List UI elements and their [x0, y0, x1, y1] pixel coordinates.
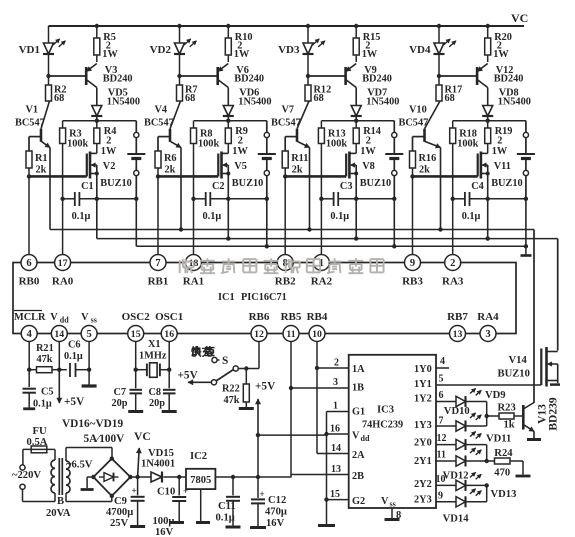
svg-text:V: V	[81, 312, 89, 323]
wire gate drive ch2	[158, 175, 218, 178]
label ~6.5V	[66, 460, 93, 471]
wire collector V10	[425, 101, 441, 129]
wire gate drive ch3	[285, 175, 346, 178]
svg-text:R21: R21	[36, 343, 54, 354]
svg-text:VD2: VD2	[150, 44, 172, 56]
svg-text:C10: C10	[157, 487, 175, 498]
capacitor C7	[130, 370, 143, 410]
label R2	[54, 85, 67, 105]
label C2	[203, 181, 225, 222]
label VD15	[141, 448, 175, 470]
ground Vss IC3	[385, 518, 400, 521]
wire source row ch4	[451, 197, 529, 201]
svg-text:V11: V11	[494, 161, 511, 172]
wire G1 Vdd tie	[324, 412, 348, 525]
label C10	[153, 487, 176, 537]
label pin12	[437, 433, 447, 444]
watermark	[180, 258, 384, 273]
svg-text:BD240: BD240	[103, 74, 133, 85]
svg-text:BUZ10: BUZ10	[100, 178, 131, 189]
svg-text:C12: C12	[268, 495, 286, 506]
svg-text:BD240: BD240	[234, 74, 264, 85]
power +5V R22 arrow	[256, 399, 261, 477]
label V11	[491, 161, 522, 189]
ground C7	[128, 410, 143, 413]
node base junction ch1	[46, 74, 50, 78]
svg-text:9: 9	[410, 258, 415, 269]
label C6	[64, 340, 83, 363]
svg-text:1W: 1W	[362, 49, 378, 60]
wire Vss	[87, 341, 91, 384]
svg-text:BD240: BD240	[362, 74, 392, 85]
label R12	[314, 85, 332, 105]
svg-text:1W: 1W	[102, 49, 118, 60]
node base junction ch3	[306, 74, 310, 78]
label 1A	[352, 364, 365, 375]
svg-text:MCLR: MCLR	[14, 312, 46, 323]
label C8	[149, 387, 166, 409]
resistor R10	[225, 26, 231, 62]
svg-text:OSC2: OSC2	[122, 311, 151, 323]
svg-text:7805: 7805	[190, 475, 211, 486]
svg-text:+: +	[260, 489, 265, 499]
label R19	[492, 126, 513, 157]
ground Vss	[82, 384, 97, 387]
transistor V13	[523, 403, 534, 439]
svg-text:1Y0: 1Y0	[414, 364, 432, 375]
label pin10	[436, 474, 446, 485]
wire collector V4	[170, 101, 181, 129]
wire RB5 to 1B 2B	[289, 341, 349, 477]
terminal AC live	[20, 449, 25, 470]
svg-text:1N5400: 1N5400	[107, 97, 140, 108]
label pin3	[333, 377, 338, 388]
svg-text:OSC1: OSC1	[155, 311, 183, 323]
label R15	[362, 32, 381, 60]
svg-text:1: 1	[333, 401, 338, 412]
label R13	[326, 129, 347, 150]
svg-text:1k: 1k	[504, 420, 515, 431]
node base junction ch4	[437, 74, 441, 78]
node gate drive junction ch1	[27, 174, 31, 178]
label pin16	[330, 424, 340, 435]
label V7	[271, 105, 301, 129]
label V6	[234, 65, 264, 85]
label Vdd IC3	[352, 431, 370, 444]
svg-text:RA3: RA3	[442, 276, 464, 288]
svg-text:VD10: VD10	[444, 406, 470, 417]
svg-text:V10: V10	[409, 105, 427, 116]
label VD13	[491, 489, 517, 500]
svg-text:VD4: VD4	[409, 44, 431, 56]
label IC2	[190, 451, 207, 462]
pin 18 RA1	[183, 255, 204, 288]
ground V14	[550, 383, 560, 386]
transistor V1	[29, 129, 50, 230]
svg-text:13: 13	[331, 464, 341, 475]
label fast-charge	[190, 346, 213, 359]
svg-text:11: 11	[286, 329, 295, 340]
ground C8	[162, 410, 177, 413]
pin 13 RB7	[447, 311, 468, 342]
svg-text:B: B	[57, 496, 64, 507]
label V3	[103, 65, 133, 85]
wire source bus feeder ch4	[486, 199, 490, 241]
IC U3 74HC239 outline	[349, 355, 436, 508]
capacitor C1	[75, 192, 80, 206]
label VD10	[444, 406, 470, 417]
svg-text:BD240: BD240	[494, 74, 524, 85]
svg-text:5: 5	[86, 329, 91, 340]
svg-text:V8: V8	[362, 161, 375, 172]
svg-text:~6.5V: ~6.5V	[66, 460, 93, 471]
label V9	[362, 65, 392, 85]
resistor R20	[485, 26, 491, 62]
svg-text:RB3: RB3	[402, 276, 423, 288]
wire battery-negative bus	[136, 245, 526, 247]
svg-text:100k: 100k	[457, 139, 478, 150]
pin 3 RA4	[477, 311, 499, 342]
svg-text:X1: X1	[148, 339, 161, 350]
svg-text:+5V: +5V	[255, 381, 276, 393]
svg-text:68: 68	[445, 93, 455, 104]
label V1	[15, 105, 45, 129]
svg-text:G2: G2	[352, 496, 365, 507]
capacitor C4	[465, 192, 470, 206]
wire discharge bus	[50, 230, 534, 404]
svg-text:~220V: ~220V	[12, 470, 41, 481]
label V13	[537, 404, 549, 424]
label R6	[164, 153, 177, 176]
wire RB2 to pin	[284, 176, 286, 254]
label 1B	[352, 383, 364, 394]
label 0.5A	[27, 437, 48, 448]
label R11	[291, 153, 308, 176]
label VD14	[443, 514, 470, 525]
pin 8 RB2	[275, 255, 296, 288]
battery holder ch3	[385, 121, 403, 199]
wire source row ch1	[60, 197, 138, 201]
wire emitter bus feeder ch3	[307, 227, 311, 231]
ground C5	[23, 407, 35, 410]
capacitor C9	[131, 477, 145, 525]
svg-text:10: 10	[312, 329, 322, 340]
svg-text:2: 2	[334, 358, 339, 369]
svg-text:RB0: RB0	[19, 276, 40, 288]
svg-text:VD13: VD13	[491, 489, 517, 500]
svg-text:RB5: RB5	[281, 311, 302, 323]
MOSFET V2	[87, 152, 99, 199]
label VD7	[366, 88, 399, 108]
svg-text:25V: 25V	[110, 518, 129, 529]
label B	[57, 496, 64, 507]
label 2Y3	[414, 495, 432, 506]
svg-text:0.1μ: 0.1μ	[64, 351, 83, 362]
label pin15	[330, 489, 340, 500]
svg-text:+: +	[132, 486, 137, 496]
label +5V Vdd	[64, 396, 85, 408]
label pin7	[439, 416, 444, 427]
diode VD15	[151, 472, 186, 483]
svg-text:BUZ10: BUZ10	[360, 178, 391, 189]
pin 12 RB6	[249, 311, 270, 342]
LED VD1	[43, 26, 65, 76]
label 1Y1	[414, 379, 432, 390]
capacitor C5	[23, 370, 36, 408]
label R4	[101, 126, 117, 157]
label C3	[330, 181, 352, 222]
svg-text:dd: dd	[361, 434, 370, 443]
resistor R24	[487, 458, 523, 464]
label VC	[134, 430, 151, 443]
pin 11 RB5	[281, 311, 302, 342]
svg-text:S: S	[222, 355, 228, 367]
label VD5	[107, 88, 140, 108]
svg-text:R23: R23	[498, 403, 516, 414]
wire source bus feeder ch3	[354, 199, 358, 241]
label pin4	[440, 356, 445, 367]
label R18	[457, 129, 478, 150]
svg-text:9: 9	[438, 491, 443, 502]
pin 1 RA2	[311, 255, 333, 288]
capacitor C11	[226, 477, 240, 526]
svg-text:68: 68	[185, 93, 195, 104]
svg-text:20p: 20p	[149, 398, 165, 409]
label V10	[399, 105, 429, 129]
capacitor C10	[172, 477, 188, 521]
label 1Y2	[414, 394, 432, 405]
svg-text:C11: C11	[218, 501, 236, 512]
svg-text:R1: R1	[35, 153, 48, 164]
label G2	[352, 496, 365, 507]
svg-text:16V: 16V	[266, 518, 285, 529]
capacitor C2	[206, 192, 211, 206]
wire charge node ch1	[63, 119, 137, 123]
svg-text:15: 15	[330, 489, 340, 500]
label pin2	[334, 358, 339, 369]
wire gate drive ch4	[413, 175, 478, 178]
battery holder ch2	[258, 121, 276, 199]
pin 7 RB1	[148, 255, 169, 288]
resistor R19	[485, 121, 491, 154]
wire RB6	[239, 341, 260, 370]
crystal X1	[136, 363, 170, 378]
label BD239	[548, 397, 560, 430]
svg-text:1N5400: 1N5400	[366, 97, 399, 108]
wire emitter bus feeder ch1	[0, 0, 1, 1]
svg-text:C1: C1	[81, 181, 94, 192]
svg-text:1W: 1W	[101, 146, 117, 157]
label V2	[100, 161, 131, 189]
bridge rectifier VD16-VD19	[91, 456, 132, 498]
diode VD8	[482, 104, 493, 121]
transformer B secondary	[66, 448, 112, 502]
ground bridge	[81, 477, 94, 490]
label S	[222, 355, 228, 367]
svg-text:IC2: IC2	[190, 451, 207, 462]
resistor R14	[353, 121, 359, 154]
svg-text:3: 3	[333, 377, 338, 388]
LED VD12	[436, 448, 487, 467]
svg-text:74HC239: 74HC239	[362, 420, 403, 431]
svg-text:BUZ10: BUZ10	[232, 178, 263, 189]
wire RA2 to pin	[320, 199, 322, 255]
svg-text:RB4: RB4	[307, 311, 328, 323]
wire source bus feeder ch1	[96, 199, 98, 239]
pin 10 RB4	[307, 311, 328, 342]
svg-text:2Y1: 2Y1	[414, 456, 432, 467]
label IC3	[362, 405, 403, 431]
svg-text:RA0: RA0	[52, 276, 74, 288]
svg-text:C2: C2	[212, 181, 225, 192]
svg-text:12: 12	[254, 329, 264, 340]
svg-text:5A∕100V: 5A∕100V	[84, 433, 126, 445]
LED VD4	[434, 26, 456, 76]
resistor R6	[155, 151, 161, 176]
svg-text:8: 8	[396, 510, 401, 521]
svg-text:20VA: 20VA	[46, 508, 71, 519]
svg-text:1B: 1B	[352, 383, 364, 394]
LED VD10	[436, 413, 487, 432]
svg-text:C8: C8	[149, 387, 162, 398]
svg-text:470μ: 470μ	[265, 507, 287, 518]
svg-text:1A: 1A	[352, 364, 365, 375]
label R8	[198, 129, 219, 150]
label V5	[232, 161, 263, 189]
svg-text:7: 7	[155, 258, 160, 269]
svg-text:20p: 20p	[112, 398, 128, 409]
svg-text:RA4: RA4	[477, 311, 499, 323]
svg-text:V: V	[352, 431, 360, 442]
diode VD5	[91, 104, 102, 121]
wire Vss pin8	[391, 508, 393, 518]
power VC arrow	[136, 448, 141, 477]
svg-text:12: 12	[437, 433, 447, 444]
wire VD11 VD12 join	[485, 445, 489, 464]
svg-text:VD15: VD15	[148, 448, 174, 459]
svg-text:2Y3: 2Y3	[414, 495, 432, 506]
label X1	[139, 339, 167, 362]
svg-text:C3: C3	[340, 181, 353, 192]
label VD1	[19, 44, 40, 56]
svg-text:47k: 47k	[37, 354, 53, 365]
svg-text:14: 14	[331, 443, 341, 454]
label FU	[33, 426, 47, 437]
svg-text:RB2: RB2	[275, 276, 296, 288]
svg-text:PIC16C71: PIC16C71	[241, 292, 287, 303]
resistor R3	[60, 121, 66, 199]
power +5V switch arrow	[188, 380, 211, 385]
svg-text:1N5400: 1N5400	[238, 97, 271, 108]
power +5V Vdd arrow	[57, 370, 62, 403]
wire charge node ch2	[194, 119, 267, 123]
label R20	[493, 32, 512, 60]
wire battery bus feeder ch2	[265, 199, 269, 249]
node VC label	[511, 11, 528, 25]
wire bridge output	[130, 475, 151, 479]
svg-text:2: 2	[238, 136, 243, 147]
svg-text:47k: 47k	[224, 395, 240, 406]
label R24	[494, 448, 513, 479]
label R21	[36, 343, 54, 365]
svg-text:G1: G1	[352, 407, 365, 418]
LED VD9	[436, 388, 487, 407]
wire charge node ch3	[321, 119, 394, 123]
label 2Y0	[414, 438, 432, 449]
svg-text:0.1μ: 0.1μ	[330, 211, 349, 222]
label G1	[352, 407, 365, 418]
svg-text:VC: VC	[134, 430, 151, 443]
ground G2	[318, 524, 335, 527]
svg-text:2k: 2k	[165, 165, 176, 176]
label ~220V	[12, 470, 41, 481]
svg-text:1N4001: 1N4001	[141, 459, 175, 470]
resistor R23	[487, 413, 524, 419]
svg-text:V1: V1	[26, 105, 39, 116]
wire RA1 to pin	[193, 199, 195, 255]
svg-text:RB7: RB7	[447, 311, 468, 323]
svg-text:11: 11	[437, 450, 446, 461]
label C9	[106, 496, 133, 529]
svg-text:0.1μ: 0.1μ	[72, 211, 91, 222]
wire charge-return bus	[97, 239, 558, 351]
label VD3	[278, 44, 300, 56]
transistor V10	[413, 129, 441, 230]
svg-text:15: 15	[131, 329, 141, 340]
label R9	[232, 126, 248, 157]
svg-text:RA2: RA2	[311, 276, 333, 288]
svg-text:VD14: VD14	[443, 514, 470, 525]
svg-text:R11: R11	[291, 153, 308, 164]
ground C11	[226, 526, 241, 529]
svg-text:RB6: RB6	[249, 311, 270, 323]
svg-text:16V: 16V	[155, 527, 174, 537]
svg-text:V: V	[381, 496, 389, 507]
pin 16 OSC1	[155, 311, 183, 342]
ground R22	[239, 407, 254, 410]
resistor R15	[353, 26, 359, 62]
label R16	[419, 153, 437, 176]
MOSFET V8	[346, 152, 358, 199]
svg-text:1MHz: 1MHz	[139, 351, 167, 362]
label 2Y2	[414, 479, 432, 490]
svg-text:1W: 1W	[232, 146, 248, 157]
capacitor C3	[334, 192, 339, 206]
label pin5	[439, 374, 444, 385]
wire emitter bus feeder ch4	[438, 227, 442, 231]
resistor R5	[94, 26, 100, 62]
svg-text:2: 2	[450, 258, 455, 269]
svg-text:100k: 100k	[67, 139, 88, 150]
svg-text:13: 13	[453, 329, 463, 340]
pin 5 Vss	[81, 312, 97, 342]
resistor R2	[46, 76, 52, 101]
label R1	[35, 153, 48, 176]
battery holder ch4	[517, 121, 535, 199]
label 2A	[352, 450, 365, 461]
LED VD13	[436, 472, 487, 491]
svg-text:10: 10	[436, 474, 446, 485]
IC U1 PIC16C71 outline	[13, 263, 516, 334]
wire source row ch2	[191, 197, 269, 201]
label VD4	[409, 44, 431, 56]
svg-text:BD239: BD239	[548, 397, 560, 430]
svg-text:C5: C5	[41, 387, 54, 398]
wire RA0 to pin	[62, 199, 64, 255]
svg-text:2k: 2k	[419, 165, 430, 176]
svg-text:1Y2: 1Y2	[414, 394, 432, 405]
label 20VA	[46, 508, 71, 519]
